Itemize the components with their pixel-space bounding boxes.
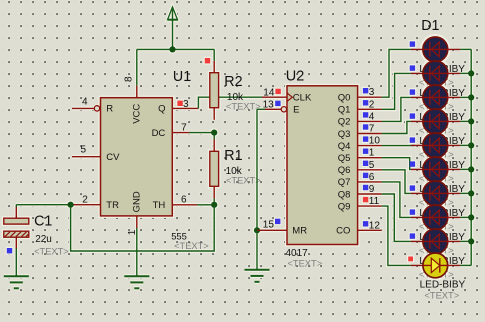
wire D8 to rail [460,216,471,218]
wire C1 up [15,205,17,207]
wire Q5 to LED D6 [382,158,411,170]
ground under U2 [245,270,270,282]
LED D5 [411,133,460,158]
wire Q6 to LED D7 [382,170,411,194]
U2 pin 9 Q8 stub [358,193,382,195]
wire DC to R2/R1 [189,133,214,140]
wire Q to CLK [198,97,262,108]
marker pin 4 [363,112,368,117]
svg-text:<TEXT>: <TEXT> [34,247,69,257]
U2 pin 6 Q7 stub [358,181,382,183]
svg-text:Q9: Q9 [338,201,351,212]
blue marker D7 [410,185,415,190]
junction power/VCC rail [169,46,175,52]
U2 pin 1 Q5 stub [358,157,382,159]
svg-text:2: 2 [82,195,88,206]
wire U1 GND down [136,228,138,276]
wire D7 to rail [460,192,471,194]
svg-text:3: 3 [369,87,375,98]
svg-text:<TEXT>: <TEXT> [288,259,323,269]
svg-text:9: 9 [369,184,375,195]
ground under U1 [124,276,149,288]
wire TR to TH loop [71,205,215,251]
wire R1 to TH [197,199,214,205]
svg-text:Q5: Q5 [338,153,351,164]
svg-text:2: 2 [369,99,375,110]
marker pin 3 [363,88,368,93]
svg-text:Q2: Q2 [338,117,351,128]
wire D2 to rail [460,72,471,74]
svg-text:10: 10 [369,136,381,147]
U1 pin 2 TR stub [73,204,101,206]
wire C1 to ground [15,249,17,277]
svg-text:DC: DC [152,128,166,139]
junction DC R2 R1 [211,130,217,136]
red marker pin 3 [177,101,182,106]
LED D2 [411,61,460,86]
junction rail D6 [468,166,474,172]
svg-text:14: 14 [263,87,275,98]
LED D9 [411,229,460,254]
svg-text:D1: D1 [421,18,439,34]
svg-text:R1: R1 [224,148,242,164]
R1 top pin [213,139,215,151]
wire D9 to rail [460,240,471,242]
svg-text:1: 1 [369,148,375,159]
svg-text:<TEXT>: <TEXT> [226,176,261,186]
wire Q8 to LED D9 [382,194,411,241]
LED D8 [411,205,460,230]
wire D5 to rail [460,144,471,146]
junction rail D4 [468,118,474,124]
U1 pin 6 TH stub [172,204,197,206]
svg-text:15: 15 [263,219,275,230]
svg-text:Q3: Q3 [338,129,351,140]
U2 CLK input triangle [287,93,292,101]
U2 pin 14 CLK stub [262,96,287,98]
red marker D10 [408,257,413,262]
LED D7 [411,181,460,206]
ground under C1 [4,276,29,288]
svg-text:7: 7 [369,124,375,135]
junction rail D7 [468,190,474,196]
wire D10 to rail [460,264,471,266]
R2 top pin [213,61,215,73]
svg-text:<TEXT>: <TEXT> [226,101,261,111]
svg-text:<TEXT>: <TEXT> [174,241,209,251]
U1 pin 1 GND stub [136,216,138,228]
marker pin 11 [363,197,368,202]
svg-text:7: 7 [181,123,187,134]
U2 pin 15 MR stub [257,229,287,231]
U2 pin 11 Q9 stub [358,205,382,207]
wire E left [257,108,265,110]
svg-text:LED-BIBY: LED-BIBY [420,280,466,291]
svg-text:8: 8 [124,76,135,82]
svg-text:4017: 4017 [286,248,309,259]
U2 pin 12 CO stub [358,229,382,231]
blue marker C1 [7,248,12,253]
op-amp U1 555 timer body [101,98,173,216]
svg-text:Q6: Q6 [338,165,351,176]
svg-text:R2: R2 [224,74,242,90]
U2 pin 5 Q6 stub [358,169,382,171]
blue marker D1 [410,41,415,46]
svg-text:Q4: Q4 [338,141,351,152]
wire Q7 to LED D8 [382,182,411,218]
svg-text:22u: 22u [35,234,52,245]
U2 pin 4 Q2 stub [358,120,382,122]
U2 pin 3 Q0 stub [358,96,382,98]
U2 pin 13 E stub [265,107,287,112]
blue marker D3 [410,89,415,94]
svg-text:U2: U2 [286,69,305,85]
svg-text:555: 555 [171,231,187,242]
blue marker D4 [410,113,415,118]
marker pin 9 [363,185,368,190]
LED D6 [411,157,460,182]
wire Q2 to LED D3 [382,97,411,121]
svg-text:CO: CO [336,226,350,237]
wire Q4 to LED D5 [382,144,415,146]
U1 pin 8 stub [136,86,138,98]
U1 pin 4 R stub [72,106,100,111]
blue marker D5 [410,137,415,142]
svg-text:E: E [293,105,299,116]
junction MR ground wire [254,227,260,233]
marker pin 6 [363,173,368,178]
blue marker D2 [410,65,415,70]
svg-text:R: R [106,104,113,115]
C1 top pin [15,207,17,218]
svg-text:6: 6 [369,172,375,183]
blue marker pin 15 [275,219,280,224]
wire D4 to rail [460,120,471,122]
wire Q1 to LED D2 [382,73,411,109]
junction TH R1 [211,202,217,208]
LED D4 [411,109,460,134]
resistor R2 [210,73,219,108]
wire VCC rail to R2 [213,49,215,60]
capacitor C1 [4,218,29,237]
U2 pin 7 Q3 stub [358,133,382,135]
U1 pin 3 Q stub [172,107,198,109]
R1 bottom pin [213,186,215,199]
junction rail D5 [468,142,474,148]
svg-text:TR: TR [106,200,119,211]
wire Q9 to LED D10 [382,206,411,265]
svg-text:Q7: Q7 [338,177,351,188]
svg-text:11: 11 [369,196,380,207]
wire D3 to rail [460,96,471,98]
wire VCC rail to U1 pin 8 [136,49,138,85]
wire E down to MR [256,109,258,230]
U1 pin 5 CV stub [72,156,101,158]
blue marker pin 13 [275,101,280,106]
U1 pin 7 DC stub [172,132,189,134]
junction rail D9 [468,238,474,244]
wire LED cathode rail [470,49,472,265]
op-amp U2 4017 counter body [287,86,358,245]
LED D1 [411,37,460,62]
svg-text:<TEXT>: <TEXT> [425,291,460,301]
wire Q3 to LED D4 [382,121,411,133]
blue marker D9 [410,233,415,238]
resistor R1 [210,151,219,186]
svg-text:VCC: VCC [132,104,143,124]
svg-text:U1: U1 [173,69,191,85]
junction rail D8 [468,214,474,220]
marker pin 2 [363,100,368,105]
svg-text:C1: C1 [34,214,52,230]
svg-text:5: 5 [81,145,87,156]
svg-text:3: 3 [183,99,189,110]
wire VCC rail [137,48,214,50]
marker pin 1 [363,149,368,154]
C1 bottom pin [15,237,17,248]
red marker pin 14 [275,89,280,94]
LED D10 [411,253,460,278]
svg-text:CV: CV [106,152,120,163]
power symbol VCC arrow [168,7,178,49]
svg-text:TH: TH [153,200,166,211]
junction rail D3 [468,94,474,100]
marker pin 7 [363,124,368,129]
R2 bottom pin [213,108,215,120]
wire Q0 to LED D1 [382,49,411,97]
blue marker pin 12 [363,221,368,226]
wire D6 to rail [460,168,471,170]
LED D3 [411,85,460,110]
U2 pin 2 Q1 stub [358,108,382,110]
svg-text:MR: MR [292,226,307,237]
junction TR C1 [68,202,74,208]
junction rail D2 [468,70,474,76]
svg-text:4: 4 [82,97,88,108]
marker pin 10 [363,136,368,141]
svg-text:CLK: CLK [293,92,312,103]
wire MR to ground [256,230,258,269]
svg-text:6: 6 [181,195,187,206]
wire C1 to TR [16,204,70,206]
marker pin 5 [363,161,368,166]
blue marker D6 [410,161,415,166]
svg-text:5: 5 [369,160,375,171]
svg-text:4: 4 [369,111,375,122]
wire D1 to rail [460,48,471,50]
svg-text:12: 12 [369,220,381,231]
svg-text:Q0: Q0 [338,93,351,104]
blue marker D8 [410,209,415,214]
svg-text:Q: Q [158,104,165,115]
U2 pin 10 Q4 stub [358,145,382,147]
svg-text:Q1: Q1 [338,105,351,116]
svg-text:GND: GND [132,191,143,212]
svg-text:Q8: Q8 [338,189,351,200]
red marker R2 [205,58,210,63]
